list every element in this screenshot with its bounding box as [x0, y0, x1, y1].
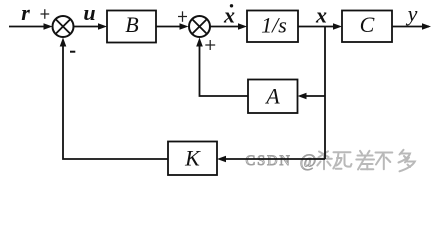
- 多: [399, 150, 415, 172]
- wire K output to junction1 bottom: [63, 42, 168, 159]
- svg-text:1/s: 1/s: [261, 13, 287, 38]
- block A: [248, 80, 298, 114]
- svg-text:C: C: [360, 12, 375, 37]
- svg-text:y: y: [406, 1, 418, 26]
- svg-text:CSDN: CSDN: [246, 153, 292, 169]
- wire r input: [9, 26, 45, 28]
- svg-text:@: @: [300, 151, 317, 171]
- wire 1/s to C with branch node x: [298, 26, 335, 28]
- wire junction2 to 1/s: [210, 26, 240, 28]
- plus sign (junction2 top-left): [178, 11, 187, 21]
- svg-text:x: x: [315, 3, 327, 28]
- svg-text:K: K: [184, 146, 201, 171]
- plus sign (junction2 bottom-right): [205, 40, 215, 50]
- summing junction 2: [189, 16, 210, 37]
- svg-text:B: B: [125, 12, 138, 37]
- plus sign (r input): [41, 9, 50, 19]
- svg-text:r: r: [21, 0, 30, 25]
- 不: [376, 153, 393, 170]
- summing junction 1: [53, 16, 74, 37]
- 差: [356, 151, 374, 170]
- block 1/s: [247, 11, 298, 43]
- 杀: [316, 151, 332, 169]
- wire branch to K input: [223, 158, 325, 160]
- block K: [168, 142, 217, 176]
- svg-text:u: u: [83, 0, 95, 25]
- block B: [107, 11, 156, 43]
- minus sign (junction1 bottom): [70, 51, 75, 53]
- wire B to junction 2: [156, 26, 182, 28]
- wire junction1 to B: [74, 26, 101, 28]
- watermark CSDN @杀死差不多: [246, 150, 415, 172]
- wire C to output y: [392, 26, 429, 28]
- wire branch vertical from node x: [324, 27, 326, 160]
- block C: [342, 11, 392, 43]
- wire branch to A input: [303, 95, 325, 97]
- svg-text:x: x: [223, 2, 235, 27]
- wire A output to junction2 bottom: [200, 42, 249, 96]
- 死: [333, 152, 351, 168]
- svg-text:A: A: [264, 84, 280, 109]
